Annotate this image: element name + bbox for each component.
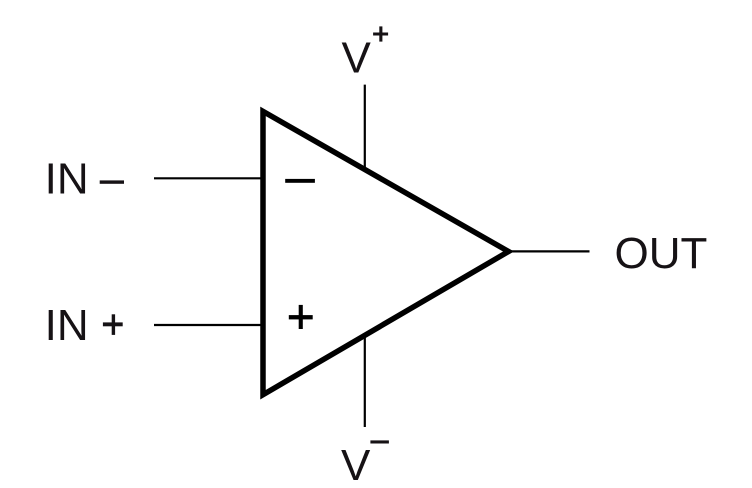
- svg-text:IN: IN: [45, 301, 89, 350]
- svg-text:OUT: OUT: [615, 229, 708, 278]
- svg-text:V: V: [342, 34, 372, 83]
- svg-text:V: V: [341, 441, 371, 488]
- svg-text:IN: IN: [45, 154, 89, 203]
